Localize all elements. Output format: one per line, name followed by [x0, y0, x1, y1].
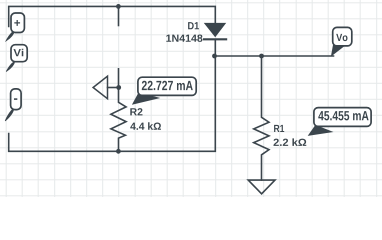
wire top rail with left source stub and diode top lead [9, 6, 216, 26]
current probe arrow at R2 [93, 76, 107, 99]
label R2 [130, 108, 142, 115]
label 1N4148 [166, 35, 202, 42]
node diode cathode junction [212, 54, 217, 59]
node bottom rail / R2 [116, 149, 121, 154]
label bubble plus terminal [6, 13, 24, 41]
node probe attach on R2 [116, 85, 121, 90]
wire bottom rail with left source stub and right riser to diode node [9, 39, 216, 151]
resistor R1 body and leads [254, 56, 269, 180]
label R1 [274, 125, 284, 132]
callout current value 22.727 mA [132, 77, 196, 105]
callout current value 45.455 mA [308, 108, 371, 136]
node R1 branch junction [259, 54, 264, 59]
wire current probe stem on R2 [108, 87, 119, 89]
node top rail / R2 [116, 4, 121, 9]
label bubble Vo [331, 27, 352, 56]
wire mid horizontal from diode node to Vo [215, 55, 333, 57]
wire R2 top stub [118, 6, 120, 25]
resistor R2 body and leads [111, 69, 126, 152]
label 4.4 kOhm [130, 122, 161, 130]
label D1 [188, 22, 199, 29]
label bubble minus terminal [5, 89, 21, 121]
label bubble Vi [6, 45, 27, 72]
ground [248, 180, 275, 194]
diode D1 [203, 23, 227, 39]
label 2.2 kOhm [273, 138, 306, 146]
